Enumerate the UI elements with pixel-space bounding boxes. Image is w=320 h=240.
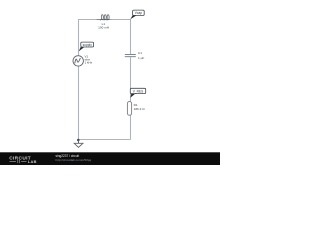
voltage source V1 (sine)	[73, 56, 83, 66]
svg-text:1 kHz: 1 kHz	[85, 61, 93, 65]
svg-text:http://circuitlab.com/c/5tfpq: http://circuitlab.com/c/5tfpq	[56, 158, 92, 162]
svg-text:1 µF: 1 µF	[138, 56, 144, 60]
inductor L1	[97, 15, 111, 20]
svg-text:Vcap: Vcap	[135, 11, 142, 15]
resistor R1	[127, 102, 131, 116]
capacitor C1	[125, 55, 136, 57]
ground	[74, 140, 83, 147]
CircuitLab logo capacitor glyph	[10, 160, 27, 163]
wire: top horizontal left segment (supply to L1)	[79, 19, 97, 21]
svg-text:100 mH: 100 mH	[98, 26, 109, 30]
CircuitLab watermark footer bar	[0, 152, 220, 165]
junction dot at ground node	[77, 139, 80, 142]
svg-text:186.2 Ω: 186.2 Ω	[134, 107, 146, 111]
wire: right vertical middle (C1 to R1)	[130, 57, 132, 102]
wire: right vertical lower (R1 to bottom corner)	[130, 115, 132, 140]
wire: left vertical lower (V1 bottom to ground node)	[78, 66, 80, 143]
net flag V_RES	[130, 88, 145, 98]
svg-text:C1: C1	[138, 51, 142, 55]
svg-text:V_RES: V_RES	[133, 89, 143, 93]
wire: left vertical upper (corner to V1 top)	[78, 19, 80, 56]
wire: bottom horizontal	[79, 139, 131, 141]
svg-text:LAB: LAB	[28, 159, 37, 164]
net flag Vcap	[130, 10, 144, 19]
wire: right vertical upper (Vcap node to C1)	[130, 19, 132, 54]
wire: top horizontal right segment (L1 to Vcap node)	[111, 19, 131, 21]
svg-text:supply: supply	[83, 43, 93, 47]
net flag supply	[79, 42, 94, 51]
